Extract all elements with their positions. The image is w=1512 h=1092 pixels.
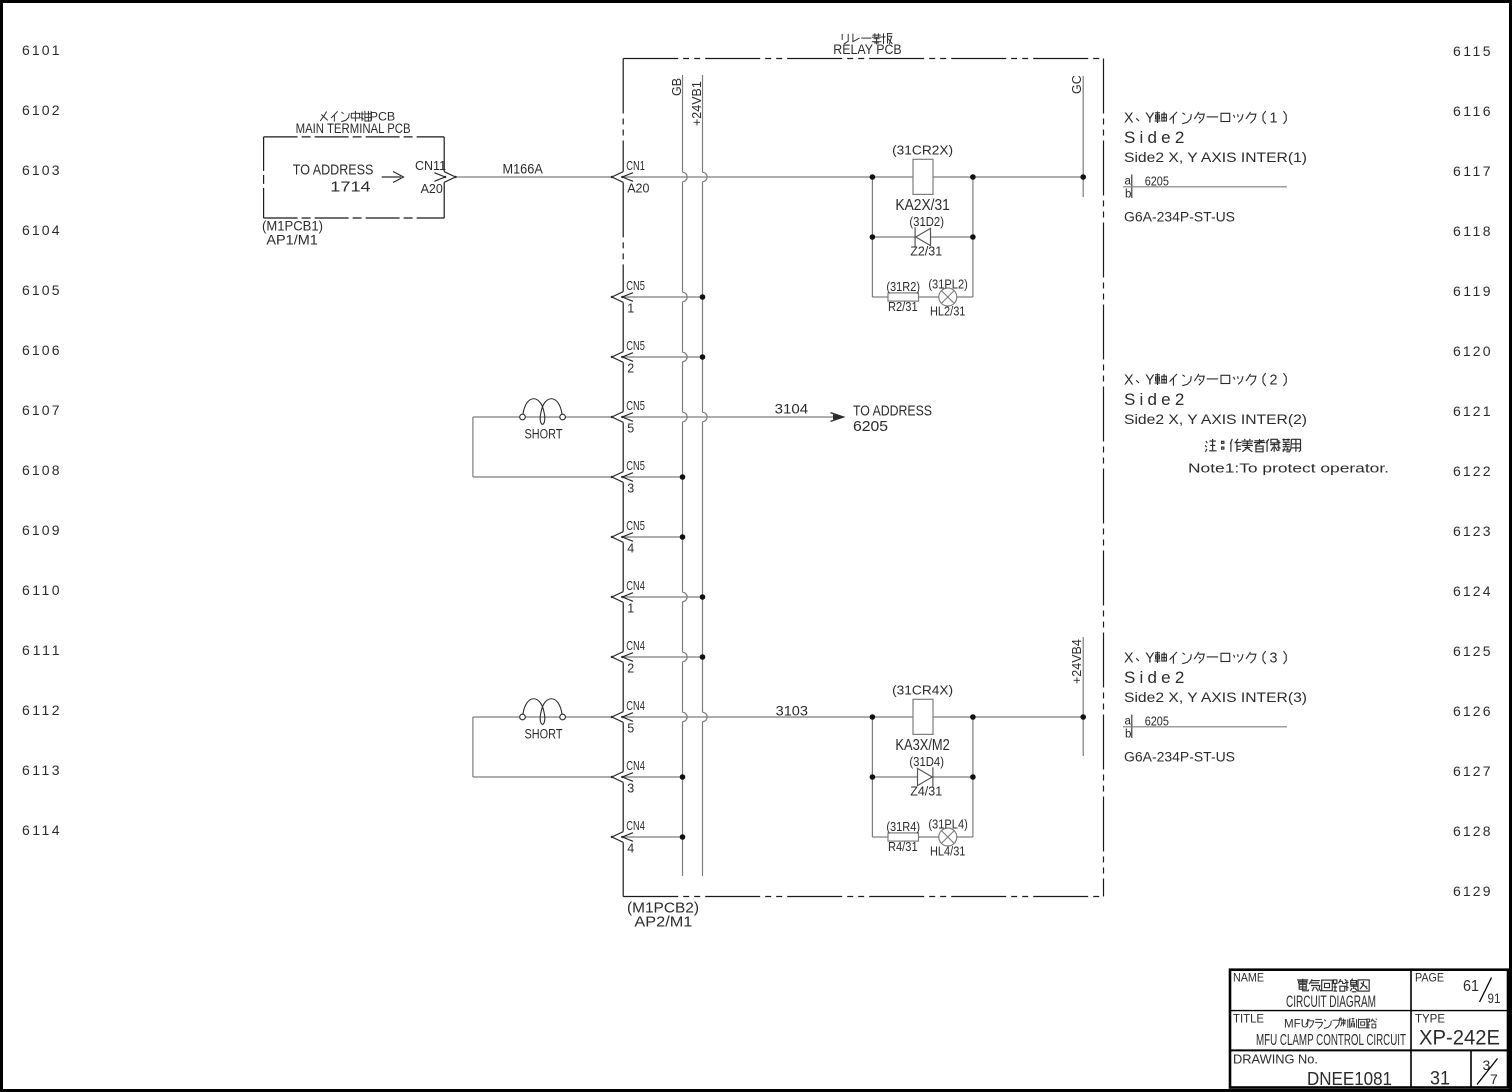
svg-text:CN5: CN5 [626,459,645,473]
svg-text:6125: 6125 [1453,643,1491,659]
svg-text:6106: 6106 [22,342,60,358]
svg-text:6119: 6119 [1453,283,1491,299]
svg-text:1: 1 [1270,111,1278,127]
svg-text:6113: 6113 [22,762,60,778]
svg-text:CN5: CN5 [626,399,645,413]
svg-text:Note1:To protect operator.: Note1:To protect operator. [1188,461,1389,476]
svg-text:6105: 6105 [22,282,60,298]
svg-text:Side2: Side2 [1124,668,1188,687]
svg-text:Y: Y [1145,373,1155,389]
svg-text:1: 1 [627,601,634,615]
svg-text:(31CR4X): (31CR4X) [892,683,953,698]
svg-text:CN11: CN11 [415,159,446,173]
svg-text:CN5: CN5 [626,279,645,293]
svg-text:6129: 6129 [1453,883,1491,899]
svg-text:6126: 6126 [1453,703,1491,719]
svg-text:(31CR2X): (31CR2X) [892,143,953,158]
svg-text:G6A-234P-ST-US: G6A-234P-ST-US [1124,750,1235,765]
svg-text:(31PL4): (31PL4) [928,817,968,831]
svg-text:a: a [1125,716,1132,728]
svg-text:6110: 6110 [22,582,60,598]
svg-text:CN4: CN4 [626,819,645,833]
svg-text:6101: 6101 [22,42,60,58]
svg-text:M166A: M166A [503,161,544,177]
svg-text:KA3X/M2: KA3X/M2 [895,737,949,754]
svg-text:6109: 6109 [22,522,60,538]
svg-text:b: b [1125,189,1131,201]
svg-text:Y: Y [1145,111,1155,127]
svg-text:6107: 6107 [22,402,60,418]
svg-text:4: 4 [627,541,634,555]
svg-text:(31PL2): (31PL2) [928,277,968,291]
svg-text:+24VB1: +24VB1 [690,81,704,126]
svg-text:5: 5 [627,421,634,435]
svg-text:6116: 6116 [1453,103,1491,119]
svg-text:TO ADDRESS: TO ADDRESS [293,161,374,178]
svg-text:HL4/31: HL4/31 [930,843,965,858]
svg-text:31: 31 [1430,1069,1450,1090]
svg-text:AP2/M1: AP2/M1 [634,914,692,930]
svg-text:DRAWING No.: DRAWING No. [1233,1053,1318,1067]
svg-text:CN4: CN4 [626,579,645,593]
svg-text:1714: 1714 [330,179,370,196]
svg-text:6123: 6123 [1453,523,1491,539]
svg-text:CN4: CN4 [626,699,645,713]
svg-text:TITLE: TITLE [1233,1012,1264,1026]
svg-text:CIRCUIT DIAGRAM: CIRCUIT DIAGRAM [1286,992,1376,1011]
svg-text:A20: A20 [627,181,649,195]
svg-text:6120: 6120 [1453,343,1491,359]
svg-text:X: X [1124,373,1134,389]
svg-text:CN5: CN5 [626,339,645,353]
svg-text:6108: 6108 [22,462,60,478]
svg-text:5: 5 [627,721,634,735]
svg-text:7: 7 [1490,1071,1498,1087]
svg-text:6122: 6122 [1453,463,1491,479]
svg-text:6117: 6117 [1453,163,1491,179]
svg-text:MFU: MFU [1284,1018,1309,1031]
svg-text:6121: 6121 [1453,403,1491,419]
svg-text:3: 3 [1270,651,1278,667]
svg-text:91: 91 [1488,990,1501,1006]
svg-text:(31R4): (31R4) [886,820,920,834]
svg-text:CN4: CN4 [626,759,645,773]
svg-text:Side2 X, Y AXIS INTER(3): Side2 X, Y AXIS INTER(3) [1124,690,1307,705]
svg-text:X: X [1124,111,1134,127]
svg-text:6114: 6114 [22,822,60,838]
svg-text:SHORT: SHORT [525,727,563,742]
svg-text:Z4/31: Z4/31 [910,784,942,799]
svg-text:KA2X/31: KA2X/31 [895,197,949,214]
svg-text:RELAY PCB: RELAY PCB [833,42,901,57]
svg-text:(31D4): (31D4) [909,755,944,769]
svg-text:CN5: CN5 [626,519,645,533]
svg-text:MAIN TERMINAL PCB: MAIN TERMINAL PCB [296,121,411,136]
svg-text:6127: 6127 [1453,763,1491,779]
svg-text:1: 1 [627,301,634,315]
svg-text:HL2/31: HL2/31 [930,303,965,318]
svg-text:MFU CLAMP CONTROL CIRCUIT: MFU CLAMP CONTROL CIRCUIT [1256,1032,1406,1049]
svg-text:AP1/M1: AP1/M1 [266,231,318,247]
svg-text:2: 2 [627,661,634,675]
svg-text:(31D2): (31D2) [909,215,944,229]
svg-text:Side2: Side2 [1124,390,1188,409]
svg-text:Side2: Side2 [1124,128,1188,147]
svg-text:(31R2): (31R2) [886,280,920,294]
svg-text:3104: 3104 [775,401,809,416]
svg-text:6124: 6124 [1453,583,1491,599]
svg-text:X: X [1124,651,1134,667]
svg-text:CN1: CN1 [626,159,645,173]
svg-text:A20: A20 [421,182,443,196]
svg-text:61: 61 [1463,978,1479,995]
svg-text:b: b [1125,729,1131,741]
svg-text:3: 3 [627,781,634,795]
svg-text:6102: 6102 [22,102,60,118]
svg-text:SHORT: SHORT [525,427,563,442]
svg-text:CN4: CN4 [626,639,645,653]
svg-text:Side2 X, Y AXIS INTER(1): Side2 X, Y AXIS INTER(1) [1124,150,1307,165]
svg-text:3103: 3103 [776,703,808,718]
svg-text:2: 2 [627,361,634,375]
svg-text:TYPE: TYPE [1415,1012,1445,1026]
svg-text:R4/31: R4/31 [888,839,918,854]
svg-text:4: 4 [627,841,634,855]
svg-text:6118: 6118 [1453,223,1491,239]
svg-text:Side2 X, Y AXIS INTER(2): Side2 X, Y AXIS INTER(2) [1124,412,1307,427]
svg-text:+24VB4: +24VB4 [1070,639,1084,684]
svg-text:GB: GB [670,78,684,96]
svg-text:2: 2 [1270,373,1278,389]
svg-text:G6A-234P-ST-US: G6A-234P-ST-US [1124,210,1235,225]
svg-text:NAME: NAME [1233,971,1264,985]
svg-text:6103: 6103 [22,162,60,178]
svg-text:XP-242E: XP-242E [1419,1027,1500,1050]
svg-text:R2/31: R2/31 [888,299,918,314]
svg-text:6104: 6104 [22,222,60,238]
svg-text:DNEE1081: DNEE1081 [1307,1069,1392,1089]
svg-text:6115: 6115 [1453,43,1491,59]
svg-text:6112: 6112 [22,702,60,718]
svg-text:PAGE: PAGE [1415,971,1444,985]
svg-text:3: 3 [627,481,634,495]
svg-text:a: a [1125,176,1132,188]
svg-text:Z2/31: Z2/31 [910,244,942,259]
svg-text:6128: 6128 [1453,823,1491,839]
svg-text:6205: 6205 [853,418,888,435]
svg-text:Y: Y [1145,651,1155,667]
svg-text:GC: GC [1070,75,1084,94]
